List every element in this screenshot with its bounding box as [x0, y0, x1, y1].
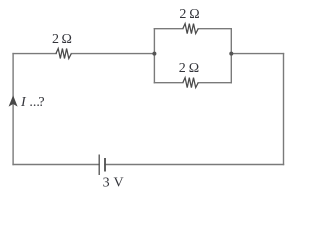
svg-text:3V: 3V: [103, 175, 124, 190]
svg-text:2Ω: 2Ω: [179, 61, 199, 76]
svg-text:2Ω: 2Ω: [179, 7, 199, 22]
svg-text:2Ω: 2Ω: [52, 32, 72, 47]
svg-text:I...?: I...?: [20, 95, 45, 110]
